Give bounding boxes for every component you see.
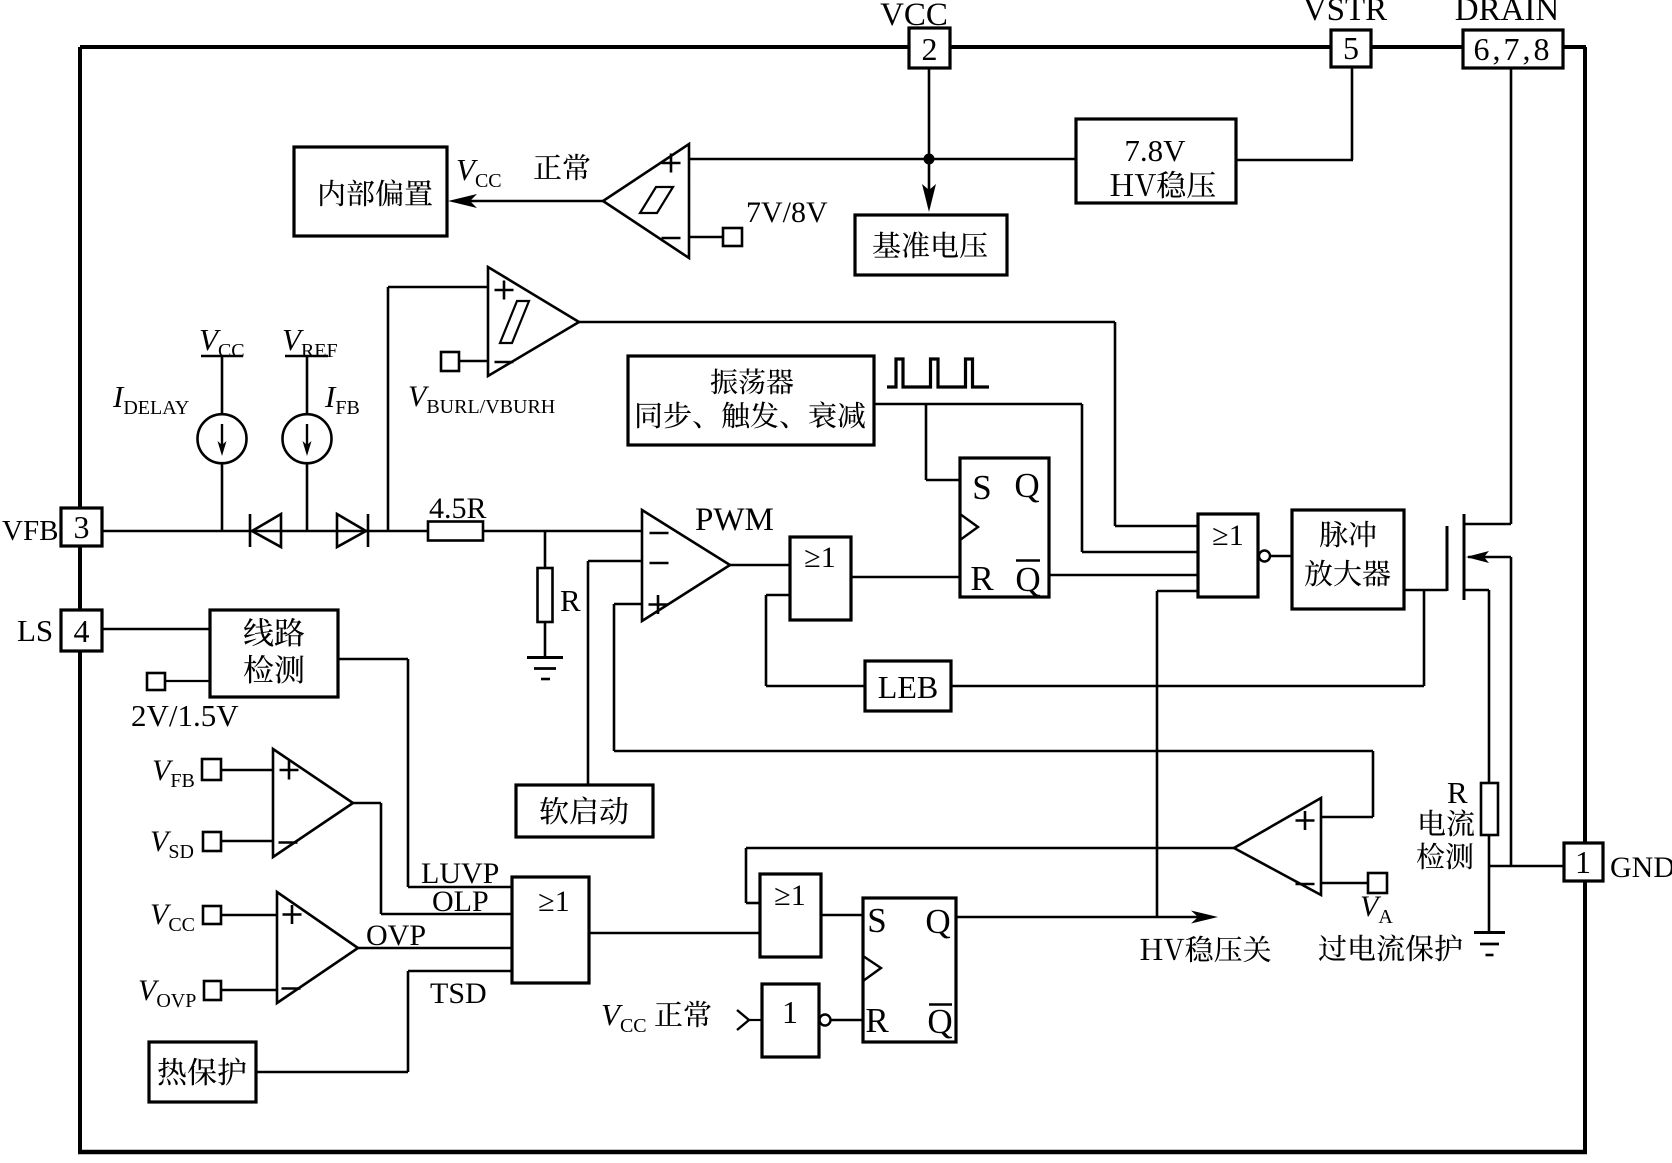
wire osc out to NOR — [874, 403, 1082, 406]
ref square V_SD — [203, 832, 221, 851]
wire bubble to pulse amp — [1270, 555, 1292, 558]
wire LUVP into OR3 — [408, 886, 512, 889]
block oscillator 振荡器 — [628, 356, 874, 445]
IC boundary outer border — [80, 45, 909, 49]
gate OR1 &ge;1 — [790, 537, 851, 620]
svg-text:≥1: ≥1 — [804, 541, 835, 574]
svg-text:R: R — [560, 583, 581, 618]
wire VCC rail to 7.8V regulator — [689, 158, 1076, 161]
ground for R — [527, 656, 563, 659]
transistor Q1 MOSFET gate bar — [1446, 526, 1449, 591]
pin 6,7,8 (DRAIN) — [1463, 30, 1563, 68]
block line detect 线路检测 — [210, 610, 338, 697]
pin 3 (VFB) — [61, 508, 102, 546]
wire FF1 Qbar to NOR — [1049, 574, 1198, 577]
svg-text:6,7,8: 6,7,8 — [1474, 31, 1553, 67]
wire PWM plus from current sense — [614, 603, 642, 606]
current source I_DELAY — [198, 414, 247, 463]
NOT output bubble — [820, 1015, 831, 1026]
wire U6 out OVP — [358, 947, 512, 950]
block reference voltage 基准电压 — [855, 215, 1007, 275]
svg-text:OVP: OVP — [366, 919, 426, 952]
svg-text:1: 1 — [782, 994, 798, 1030]
wire sense resistor to ground — [1488, 835, 1491, 932]
svg-text:5: 5 — [1343, 30, 1359, 66]
wire PWM out to OR1 — [730, 564, 790, 567]
wire osc branch to FF1 S — [925, 404, 928, 480]
svg-text:LS: LS — [17, 613, 53, 648]
svg-text:S: S — [972, 468, 991, 507]
wire U2 output to NOR gate — [579, 321, 1115, 324]
label HV regulator off HV稳压关 — [1141, 936, 1271, 963]
block 7.8V HV regulator — [1076, 119, 1236, 203]
wire OR3 out to OR2 — [589, 932, 760, 935]
wire U1 output to internal bias with arrow — [457, 200, 603, 203]
ref square V_OVP — [204, 981, 221, 1000]
wire OR2 out to FF2 S — [821, 914, 863, 917]
clock waveform icon — [887, 359, 989, 387]
gate OR3 &ge;1 protection — [512, 877, 589, 983]
transistor Q1 channel bar — [1463, 514, 1466, 600]
svg-text:7.8V: 7.8V — [1124, 133, 1186, 168]
ref square V_CC ovp — [203, 906, 221, 924]
wire OR1 input2 from LEB — [766, 594, 790, 597]
svg-text:Q: Q — [1015, 560, 1040, 599]
svg-text:R: R — [970, 559, 994, 598]
wire FF2 Q out HV-off with arrow — [956, 916, 1211, 919]
pin 5 (VSTR) — [1331, 30, 1371, 67]
ground for sense resistor — [1474, 931, 1505, 934]
svg-text:≥1: ≥1 — [774, 879, 805, 912]
wire VSTR to regulator — [1351, 67, 1354, 160]
ref square V_A — [1368, 873, 1387, 893]
wire VCC pin2 down — [928, 68, 931, 159]
current source I_FB — [283, 414, 332, 463]
input chevron VCC-good — [737, 1010, 749, 1030]
diode D1 (cathode left) — [252, 514, 281, 547]
FF2 clock chevron — [863, 956, 881, 981]
resistor 4.5R — [428, 522, 483, 541]
wire substrate to GND rail — [1510, 557, 1513, 866]
svg-text:1: 1 — [1575, 844, 1591, 880]
comparator U1 VCC-good (points left) — [603, 144, 689, 258]
flip-flop FF2 box — [863, 898, 956, 1042]
wire VFB line — [102, 530, 428, 533]
pin 1 (GND) — [1564, 843, 1603, 881]
node VCC junction dot — [924, 154, 935, 165]
Q1 drain tap — [1464, 523, 1511, 526]
svg-text:Q: Q — [927, 1002, 952, 1041]
ref square 7V/8V — [723, 228, 742, 246]
ref square V_FB — [202, 759, 221, 780]
wire GND rail to pin 1 — [1489, 865, 1564, 868]
wire R tap — [544, 531, 547, 568]
comparator U6 OVP — [277, 892, 358, 1003]
Q1 substrate arrow — [1468, 556, 1511, 559]
svg-text:7V/8V: 7V/8V — [746, 196, 828, 229]
pin 2 (VCC) — [909, 28, 950, 68]
svg-text:VSTR: VSTR — [1303, 0, 1387, 28]
wire TSD from thermal — [408, 970, 512, 973]
wire pulse amp to MOSFET gate — [1404, 589, 1447, 592]
NOR output bubble — [1259, 551, 1270, 562]
svg-text:S: S — [867, 901, 886, 940]
svg-text:3: 3 — [74, 509, 90, 545]
FF1 clock chevron — [960, 514, 978, 540]
comparator U3 PWM — [642, 510, 730, 621]
svg-text:≥1: ≥1 — [1212, 519, 1243, 552]
diode D2 (anode left) — [337, 514, 366, 547]
wire PWM minus2 from soft start — [588, 560, 642, 563]
Q1 source tap — [1464, 589, 1489, 592]
svg-text:Q: Q — [925, 902, 950, 941]
svg-text:DRAIN: DRAIN — [1455, 0, 1560, 28]
wire source down to sense resistor — [1488, 590, 1491, 783]
block thermal protection 热保护 — [149, 1042, 256, 1102]
wire 4.5R to PWM — [483, 530, 642, 533]
comparator U5 UVLO/OLP — [273, 749, 353, 857]
gate NOR &ge;1 — [1198, 514, 1258, 597]
svg-text:TSD: TSD — [430, 977, 487, 1010]
wire OR1 out to FF1 R — [851, 576, 960, 579]
block LEB — [865, 661, 951, 711]
svg-text:OLP: OLP — [432, 885, 489, 918]
wire OCP out to OR2 — [746, 847, 1234, 850]
svg-text:GND: GND — [1610, 851, 1672, 884]
ref square VBURL/VBURH — [441, 352, 459, 371]
wire NOR input4 from HV-off latch — [1157, 590, 1198, 593]
block pulse amplifier 脉冲放大器 — [1292, 510, 1404, 609]
svg-text:2: 2 — [922, 31, 938, 67]
gate NOT 1 — [762, 984, 819, 1057]
comparator U4 OCP (points left) — [1234, 798, 1321, 895]
flip-flop FF1 box — [960, 458, 1049, 597]
resistor R shunt — [538, 568, 553, 622]
wire LEB to gate node — [951, 685, 1424, 688]
wire VCC to reference, arrow down — [928, 159, 931, 207]
svg-text:PWM: PWM — [695, 502, 774, 538]
svg-text:LEB: LEB — [878, 669, 938, 705]
ref square 2V/1.5V — [147, 673, 165, 690]
comparator U2 burst (points right) — [488, 267, 579, 376]
svg-text:≥1: ≥1 — [538, 885, 569, 918]
svg-text:Q: Q — [1014, 466, 1039, 505]
wire drain to DRAIN pin — [1510, 68, 1513, 524]
svg-text:R: R — [865, 1001, 889, 1040]
resistor R current sense — [1481, 783, 1498, 835]
pin 4 (LS) — [61, 610, 102, 651]
gate OR2 &ge;1 — [760, 874, 821, 957]
label overcurrent protection 过电流保护 — [1319, 934, 1462, 961]
svg-text:2V/1.5V: 2V/1.5V — [131, 698, 239, 733]
block internal bias 内部偏置 — [294, 147, 447, 236]
wire line-detect out to LUVP — [338, 658, 408, 661]
wire R to ground — [544, 622, 547, 657]
wire U5 out to OLP input — [353, 802, 381, 805]
block soft start 软启动 — [516, 785, 653, 837]
wire U2 plus input from VFB node — [388, 286, 488, 289]
wire LS to line detect — [102, 628, 210, 631]
wire NOT to FF2 R — [831, 1019, 863, 1022]
svg-text:VFB: VFB — [2, 515, 58, 547]
svg-text:4.5R: 4.5R — [429, 492, 487, 525]
svg-text:R: R — [1447, 775, 1468, 810]
svg-text:4: 4 — [74, 613, 90, 649]
